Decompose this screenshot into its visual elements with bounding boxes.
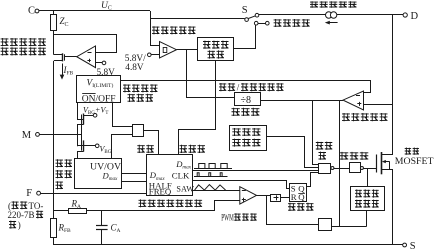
high-voltage current source bbox=[326, 12, 332, 18]
wire UV comparator output bbox=[177, 49, 198, 51]
wire switch to HV current source bbox=[259, 14, 326, 16]
label overcurrent comparator (cjk) bbox=[342, 113, 388, 121]
label current-limit adjuster (cjk) bbox=[123, 84, 158, 92]
svg-text:D: D bbox=[411, 11, 419, 22]
wire plus box to flip-flop R bbox=[281, 197, 290, 199]
wire RFB to ground rail bbox=[53, 237, 55, 245]
wire stop to oscillator bbox=[143, 131, 158, 155]
label flip-flop (cjk) bbox=[288, 203, 314, 211]
wire to switch S bbox=[150, 18, 245, 20]
wire counter output to main gate and OC comparator bbox=[261, 100, 340, 102]
label driver (cjk) bbox=[340, 152, 369, 160]
gate output bubble bbox=[331, 167, 334, 170]
wire drop to main gate top input bbox=[313, 100, 319, 164]
svg-text:SAW: SAW bbox=[176, 184, 194, 193]
wire F to oscillator bbox=[41, 193, 148, 195]
svg-text:C: C bbox=[28, 6, 35, 17]
waveform Dmax pulses bbox=[194, 168, 232, 170]
wire current source to D bbox=[337, 14, 403, 16]
label soft-start circuit (cjk) bbox=[203, 41, 229, 49]
transistor Q2 line sense upper bbox=[78, 119, 84, 121]
wire UV/OV to oscillator halffreq bbox=[122, 181, 148, 183]
wire RA to PWM plus input bbox=[87, 201, 240, 211]
block VI(LIMIT) ON/OFF bbox=[77, 76, 121, 103]
label package note line3 bbox=[9, 221, 16, 229]
label stop (cjk) bbox=[137, 145, 154, 153]
wire amp plus input to 5.8V ref bbox=[96, 62, 103, 64]
wire OC plus input to drain rail bbox=[364, 104, 394, 106]
wire RA branch bbox=[53, 210, 69, 212]
svg-text:): ) bbox=[18, 220, 21, 230]
terminal S bottom bbox=[403, 243, 407, 247]
comparator U2 undervoltage bbox=[160, 42, 177, 59]
comparator U4 PWM bbox=[240, 187, 257, 204]
transistor Q3 line sense lower bbox=[78, 145, 84, 147]
driver output bubble bbox=[360, 167, 363, 170]
resistor RFB bbox=[51, 219, 57, 238]
wire rail to RFB bbox=[53, 193, 55, 219]
terminal D bbox=[403, 13, 407, 17]
wire gate signal to blanking circuit bbox=[367, 168, 369, 187]
wire bottom source return bbox=[53, 244, 402, 246]
wire C to Uc node bbox=[39, 10, 150, 12]
wire sense gate output bbox=[331, 226, 366, 228]
wire Dmax output to main gate bbox=[193, 170, 318, 172]
wire blanking to sense gate bbox=[366, 211, 368, 227]
input 5.8V/4.8V terminal bbox=[148, 53, 152, 57]
svg-text:MOSFET: MOSFET bbox=[395, 156, 434, 167]
svg-text:F: F bbox=[26, 188, 32, 199]
waveform sawtooth bbox=[195, 185, 226, 191]
internal supply tap terminals bbox=[254, 21, 258, 25]
gate stop box bbox=[133, 125, 144, 137]
svg-text:S: S bbox=[242, 5, 248, 16]
svg-text:PWM: PWM bbox=[221, 212, 234, 222]
flip-flop SR latch bbox=[290, 184, 307, 202]
wire thermal to main gate bbox=[266, 137, 318, 168]
wire UV/OV to stop gate bbox=[112, 135, 133, 159]
svg-text:R: R bbox=[291, 192, 297, 202]
wire C rail to M bbox=[53, 61, 55, 134]
label shutdown/auto-restart (cjk) bbox=[219, 83, 235, 91]
label frequency jitter oscillator (cjk) bbox=[139, 199, 203, 207]
wire C line drop to UV comparator bbox=[151, 11, 160, 46]
current arrow Ifb bbox=[62, 64, 64, 76]
wire MOSFET source to S rail bbox=[392, 169, 394, 245]
wire rail M to F bbox=[53, 134, 55, 193]
power MOSFET bbox=[376, 155, 378, 173]
label leading edge blanking (cjk) bbox=[355, 189, 379, 197]
wire gate to driver bbox=[334, 168, 350, 170]
label soft-start wire (cjk) bbox=[180, 145, 206, 153]
wire Q output to main gate bbox=[306, 173, 318, 187]
resistor RA bbox=[69, 209, 87, 214]
block leading-edge blanking bbox=[351, 187, 385, 211]
label line detector (cjk) bbox=[56, 159, 73, 167]
svg-text:÷8: ÷8 bbox=[241, 95, 252, 106]
capacitor CA bbox=[101, 211, 103, 226]
svg-text:M: M bbox=[22, 130, 32, 141]
svg-text:FREQ: FREQ bbox=[149, 187, 172, 197]
wire M to gates bbox=[39, 134, 81, 136]
wire UV/OV to oscillator Dmax bbox=[122, 173, 148, 175]
svg-text:ON/OFF: ON/OFF bbox=[82, 94, 116, 104]
sense gate small box bbox=[319, 219, 332, 231]
block hysteretic thermal shutdown bbox=[230, 126, 267, 151]
label main control gate (cjk) bbox=[316, 142, 333, 150]
label counter (cjk) bbox=[232, 108, 260, 116]
comparator U3 overcurrent bbox=[343, 91, 364, 110]
impedance Zc bbox=[51, 15, 57, 31]
wire D rail down to MOSFET drain bbox=[392, 15, 394, 155]
wire soft-start to oscillator bbox=[179, 60, 216, 155]
waveform CLK pulses bbox=[194, 176, 228, 178]
shared gate line bbox=[81, 123, 83, 142]
wire feedback loop top bbox=[53, 35, 116, 53]
label shunt-regulator / error-amplifier (cjk) bbox=[1, 38, 46, 46]
svg-text:CLK: CLK bbox=[172, 170, 190, 180]
label HV current source (cjk) bbox=[310, 1, 357, 8]
summing junction plus box bbox=[271, 195, 281, 202]
transistor Q1 bbox=[53, 54, 62, 56]
current direction arrow bbox=[329, 22, 338, 24]
label internal supply (cjk) bbox=[274, 19, 310, 27]
wire PWM out down to blanking gate bbox=[267, 195, 319, 224]
hysteresis symbol bbox=[163, 47, 167, 53]
block divide-by-8 counter bbox=[235, 93, 261, 106]
wire soft-start to supply rail bbox=[234, 25, 256, 49]
wire amp output to Q1 gate bbox=[64, 56, 77, 58]
block frequency jitter oscillator bbox=[147, 155, 193, 196]
wire OC/counter signal down to sense gate output bbox=[339, 100, 341, 227]
wire SAW output to PWM comparator bbox=[193, 190, 240, 192]
wire PWM output bbox=[257, 195, 272, 197]
block UV/OV bbox=[75, 159, 122, 189]
wire C rail upper bbox=[53, 30, 55, 54]
block soft-start circuit bbox=[198, 38, 234, 61]
wire CLK output to flip-flop S bbox=[193, 181, 290, 189]
label power MOSFET (cjk) bbox=[405, 148, 419, 155]
block driver bbox=[350, 163, 361, 173]
wire driver to MOSFET gate bbox=[363, 168, 377, 170]
op-amp U1 error amplifier bbox=[77, 46, 96, 68]
svg-text:S: S bbox=[410, 241, 416, 249]
wire current limit to overcurrent comparator bbox=[121, 81, 371, 93]
wire ON/OFF to stop gate bbox=[113, 103, 133, 127]
svg-text:4.8V: 4.8V bbox=[125, 63, 144, 73]
wire UV out to divide-by-8 bbox=[187, 50, 236, 98]
label undervoltage-comparator (cjk) bbox=[152, 26, 196, 34]
label thermal shutdown (cjk) bbox=[232, 128, 260, 136]
block main control gate bbox=[319, 164, 331, 174]
wire ON/OFF to transistors bbox=[77, 103, 79, 120]
svg-text:220-7B: 220-7B bbox=[8, 210, 35, 220]
